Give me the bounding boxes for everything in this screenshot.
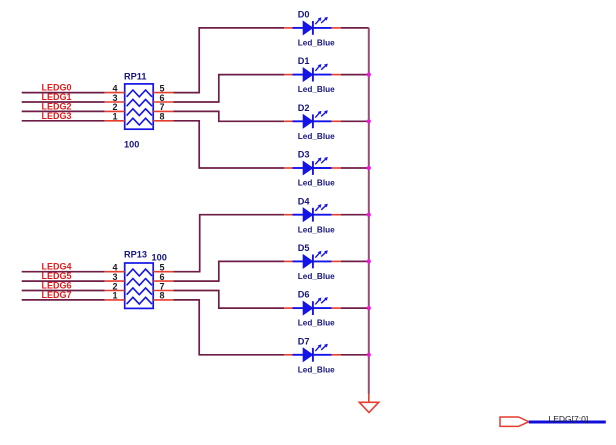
pin 1 of D4 (anode lead)	[284, 214, 292, 216]
svg-text:Led_Blue: Led_Blue	[298, 132, 335, 141]
pin 1 of D0 (anode lead)	[284, 27, 292, 29]
wire net LEDG3	[22, 120, 105, 122]
svg-text:D2: D2	[298, 103, 310, 113]
pin 5 of RP13	[153, 271, 173, 273]
wire net LEDG2	[22, 110, 105, 112]
junction at D4 cathode / bus	[367, 213, 371, 217]
wire right vertical bus (LED cathodes to ground)	[368, 28, 370, 394]
LED D5	[293, 250, 332, 268]
svg-text:LEDG[7:0]: LEDG[7:0]	[549, 414, 589, 424]
pin 2 of RP11	[105, 110, 125, 112]
svg-text:D6: D6	[298, 290, 310, 300]
LED D7	[293, 344, 332, 362]
pin 3 of RP13	[105, 280, 125, 282]
svg-text:Led_Blue: Led_Blue	[298, 179, 335, 188]
junction at D1 cathode / bus	[367, 73, 371, 77]
LED D3	[293, 157, 332, 175]
pin 2 of D2 (cathode lead)	[332, 120, 341, 122]
svg-text:D0: D0	[298, 10, 310, 20]
wire RP13 pin6 to D5	[173, 261, 284, 281]
wire RP13 pin5 to D4	[173, 215, 284, 272]
svg-text:LEDG7: LEDG7	[42, 290, 72, 300]
junction at D6 cathode / bus	[367, 306, 371, 310]
pin 1 of D5 (anode lead)	[284, 260, 292, 262]
junction at D3 cathode / bus	[367, 166, 371, 170]
svg-text:D1: D1	[298, 56, 310, 66]
pin 5 of RP11	[153, 92, 173, 94]
wire net LEDG6	[22, 290, 105, 292]
pin of ground symbol	[368, 394, 370, 402]
svg-text:D7: D7	[298, 336, 310, 346]
pin 1 of RP11	[105, 120, 125, 122]
wire RP13 pin7 to D6	[173, 291, 284, 309]
pin 2 of D0 (cathode lead)	[332, 27, 341, 29]
pin 1 of D3 (anode lead)	[284, 167, 292, 169]
wire net LEDG4	[22, 271, 105, 273]
svg-text:Led_Blue: Led_Blue	[298, 272, 335, 281]
pin 2 of D7 (cathode lead)	[332, 354, 341, 356]
pin 8 of RP11	[153, 120, 173, 122]
resistor pack RP13	[125, 263, 154, 308]
svg-text:RP13: RP13	[124, 250, 147, 260]
svg-text:8: 8	[160, 291, 165, 301]
LED D4	[293, 204, 332, 222]
pin 1 of D2 (anode lead)	[284, 120, 292, 122]
pin 8 of RP13	[153, 299, 173, 301]
svg-text:LEDG3: LEDG3	[42, 111, 72, 121]
wire D5 cathode to bus	[341, 260, 369, 262]
wire RP11 pin8 to D3	[173, 121, 284, 168]
wire D0 cathode to bus	[341, 27, 369, 29]
pin 6 of RP13	[153, 280, 173, 282]
svg-text:Led_Blue: Led_Blue	[298, 365, 335, 374]
wire D7 cathode to bus	[341, 354, 369, 356]
junction at D7 cathode / bus	[367, 353, 371, 357]
pin 1 of D7 (anode lead)	[284, 354, 292, 356]
svg-text:1: 1	[112, 291, 117, 301]
wire D4 cathode to bus	[341, 214, 369, 216]
wire D2 cathode to bus	[341, 120, 369, 122]
pin 2 of D6 (cathode lead)	[332, 307, 341, 309]
LED D2	[293, 110, 332, 128]
svg-text:100: 100	[152, 253, 167, 263]
junction at D5 cathode / bus	[367, 259, 371, 263]
ground	[359, 402, 378, 412]
pin 7 of RP11	[153, 110, 173, 112]
pin 6 of RP11	[153, 101, 173, 103]
LED D6	[293, 297, 332, 315]
pin 7 of RP13	[153, 290, 173, 292]
pin 1 of RP13	[105, 299, 125, 301]
bus wire LEDG[7:0]	[529, 421, 606, 424]
pin 1 of D6 (anode lead)	[284, 307, 292, 309]
svg-text:D5: D5	[298, 243, 310, 253]
pin 2 of D4 (cathode lead)	[332, 214, 341, 216]
svg-text:100: 100	[124, 140, 139, 150]
svg-text:D3: D3	[298, 150, 310, 160]
wire net LEDG1	[22, 101, 105, 103]
pin 2 of D3 (cathode lead)	[332, 167, 341, 169]
wire RP11 pin6 to D1	[173, 75, 284, 102]
pin 2 of RP13	[105, 290, 125, 292]
LED D0	[293, 17, 332, 35]
junction at D2 cathode / bus	[367, 119, 371, 123]
svg-text:8: 8	[160, 112, 165, 122]
wire D3 cathode to bus	[341, 167, 369, 169]
LED D1	[293, 64, 332, 82]
svg-text:Led_Blue: Led_Blue	[298, 225, 335, 234]
pin 1 of D1 (anode lead)	[284, 74, 292, 76]
wire RP11 pin7 to D2	[173, 111, 284, 121]
wire net LEDG5	[22, 280, 105, 282]
pin 2 of D1 (cathode lead)	[332, 74, 341, 76]
svg-text:RP11: RP11	[124, 72, 146, 82]
pin 4 of RP11	[105, 92, 125, 94]
svg-text:1: 1	[112, 112, 117, 122]
svg-text:D4: D4	[298, 196, 311, 206]
svg-text:Led_Blue: Led_Blue	[298, 85, 335, 94]
wire D6 cathode to bus	[341, 307, 369, 309]
wire net LEDG0	[22, 92, 105, 94]
pin 4 of RP13	[105, 271, 125, 273]
wire RP11 pin5 to D0	[173, 28, 284, 93]
resistor pack RP11	[125, 84, 154, 129]
port LEDG[7:0]	[500, 417, 529, 426]
pin 3 of RP11	[105, 101, 125, 103]
wire D1 cathode to bus	[341, 74, 369, 76]
pin 2 of D5 (cathode lead)	[332, 260, 341, 262]
wire net LEDG7	[22, 299, 105, 301]
wire RP13 pin8 to D7	[173, 300, 284, 355]
svg-text:Led_Blue: Led_Blue	[298, 39, 335, 48]
svg-text:Led_Blue: Led_Blue	[298, 319, 335, 328]
